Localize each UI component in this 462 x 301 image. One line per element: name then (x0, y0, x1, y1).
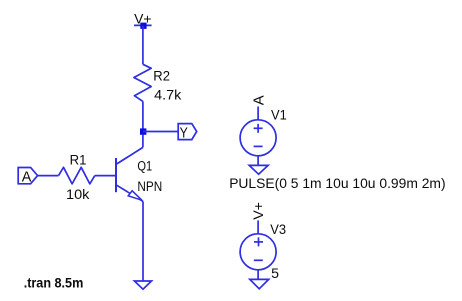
wire R2 to node (142, 101, 144, 131)
voltage source V1 (240, 120, 276, 156)
junction node Y (140, 128, 146, 134)
resistor R2 (134, 64, 151, 101)
wire V1 bottom (257, 156, 259, 166)
svg-text:NPN: NPN (137, 179, 162, 195)
wire V3 bottom (257, 270, 259, 280)
svg-text:R2: R2 (153, 69, 170, 85)
wire R1 to base (95, 175, 116, 177)
junction at V+ (140, 23, 146, 29)
voltage source V3 (240, 234, 276, 270)
svg-text:V1: V1 (271, 108, 287, 124)
svg-text:5: 5 (271, 266, 279, 282)
wire node to Y flag (143, 131, 178, 133)
wire A to R1 (38, 175, 59, 177)
svg-text:PULSE(0 5 1m 10u 10u 0.99m 2m): PULSE(0 5 1m 10u 10u 0.99m 2m) (229, 176, 445, 192)
svg-text:R1: R1 (70, 152, 87, 168)
wire V3 top (257, 220, 259, 233)
resistor R1 (59, 167, 95, 184)
node flag A (18, 168, 37, 186)
svg-text:10k: 10k (66, 187, 90, 203)
ground V3 (250, 279, 269, 288)
ground V1 (249, 165, 268, 174)
node flag Y (178, 124, 197, 142)
svg-text:V+: V+ (251, 202, 267, 220)
wire V1 top (257, 107, 259, 120)
power flag V+ bar (134, 24, 152, 26)
svg-text:A: A (22, 168, 32, 185)
svg-text:.tran 8.5m: .tran 8.5m (24, 276, 84, 292)
svg-text:Y: Y (180, 125, 188, 142)
wire emitter to ground (142, 201, 144, 281)
transistor Q1 (116, 135, 143, 202)
ground main (134, 281, 151, 289)
wire V+ to R2 (142, 26, 144, 65)
svg-text:4.7k: 4.7k (154, 87, 182, 103)
svg-text:Q1: Q1 (137, 158, 152, 174)
svg-text:A: A (252, 95, 268, 105)
svg-text:V3: V3 (270, 222, 286, 238)
